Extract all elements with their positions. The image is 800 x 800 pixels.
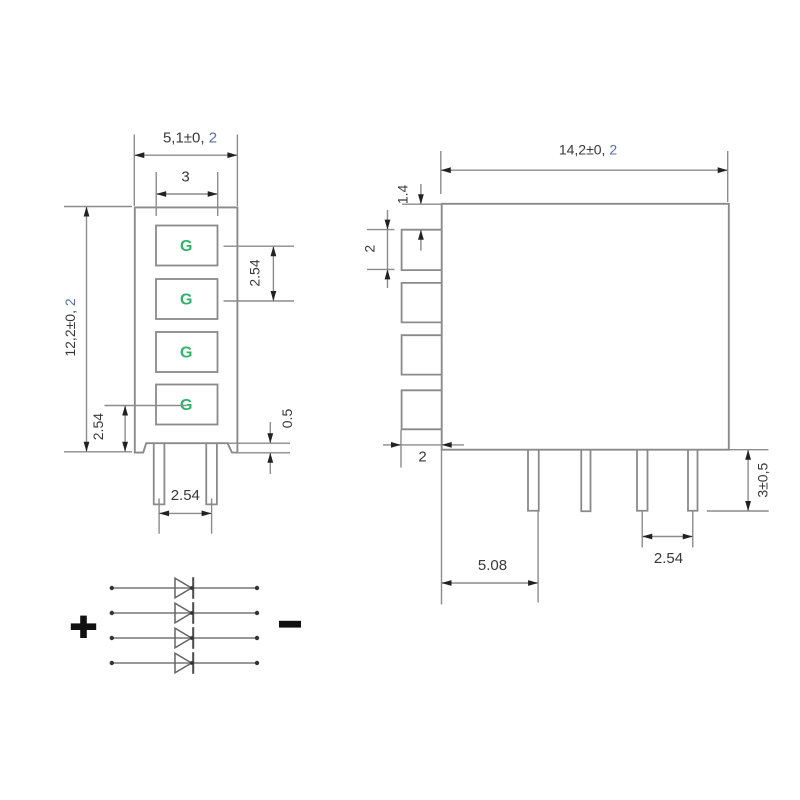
dimension 2.54 (lower-left pitch) extension line: [105, 405, 187, 407]
diode D1: [175, 577, 193, 599]
svg-text:5,1±0, 2: 5,1±0, 2: [163, 130, 217, 147]
dimension 5,1±0,2 extension lines: [133, 135, 135, 207]
dimension 2 (tab height) line with outside arrows: [387, 210, 389, 288]
svg-text:2: 2: [418, 449, 426, 466]
dimension 2.54 (side view pin pitch) extension lines: [641, 511, 643, 548]
dimension 0.5 extension lines: [228, 442, 290, 444]
dimension 2.54 (LED pitch) line: [272, 246, 274, 301]
dimension 5,1±0,2 line: [134, 154, 237, 156]
LED bar body outline (front view): [135, 207, 238, 452]
node dot right row 2: [255, 611, 259, 615]
node dot right row 3: [255, 636, 259, 640]
svg-text:2.54: 2.54: [171, 487, 200, 504]
dimension 5.08 line: [442, 582, 539, 584]
dimension 1.4 extension line: [402, 203, 442, 205]
dimension 2.54 (pin spacing bottom) extension lines: [158, 499, 160, 534]
dimension 1.4 line with outside arrows: [420, 184, 422, 204]
anode terminal +: [71, 616, 96, 638]
dimension 3 line: [156, 193, 218, 195]
pin 1 (front view left lead): [154, 444, 165, 505]
LED window 3: [156, 332, 218, 372]
pin 4 (side view): [688, 450, 698, 510]
svg-text:3±0,5: 3±0,5: [755, 463, 771, 498]
svg-text:1.4: 1.4: [394, 184, 410, 204]
svg-text:2.54: 2.54: [654, 550, 683, 567]
svg-text:G: G: [180, 292, 192, 309]
dimension 2.54 (lower-left) line: [124, 406, 126, 452]
LED window 1: [156, 226, 218, 266]
diode D2: [175, 602, 193, 624]
LED lens tab 1 (side view): [402, 230, 442, 270]
dimension 2.54 (pin spacing) line: [159, 512, 212, 514]
dimension 14,2±0,2 line: [441, 169, 728, 171]
node dot left row 2: [110, 611, 114, 615]
dimension 3±0,5 extension lines: [729, 449, 769, 451]
dimension 12,2±0,2 line: [86, 207, 88, 452]
svg-text:5.08: 5.08: [478, 557, 507, 574]
pin 2 (side view): [581, 450, 590, 511]
dimension 2.54 (LED pitch right) extension lines: [224, 245, 295, 247]
LED lens tab 2 (side view): [402, 283, 442, 323]
svg-text:0.5: 0.5: [279, 409, 295, 429]
LED lens tab 3 (side view): [402, 335, 442, 374]
diode D3: [175, 627, 193, 649]
node dot left row 4: [110, 661, 114, 665]
LED lens tab 4 (side view): [402, 390, 442, 429]
svg-text:3: 3: [181, 169, 189, 186]
dimension 2 (tab height) extension lines: [367, 229, 395, 231]
svg-text:G: G: [180, 345, 192, 362]
svg-text:14,2±0, 2: 14,2±0, 2: [559, 142, 617, 158]
dimension 5.08 extension lines: [441, 450, 443, 605]
wire diode row 2: [112, 612, 257, 614]
dimension 0.5 line with outside arrows: [269, 422, 271, 443]
dimension 3±0,5 line: [747, 450, 749, 511]
node dot right row 1: [255, 586, 259, 590]
svg-text:12,2±0, 2: 12,2±0, 2: [62, 298, 78, 356]
dimension 2 (tab depth) line with outside arrows: [383, 444, 464, 446]
dimension 3 extension lines: [155, 172, 157, 216]
dimension 14,2±0,2 extension lines: [440, 151, 442, 194]
node dot right row 4: [255, 661, 259, 665]
pin 2 (front view right lead): [206, 444, 217, 505]
svg-text:2.54: 2.54: [247, 259, 263, 286]
wire diode row 4: [112, 662, 257, 664]
svg-text:G: G: [180, 238, 192, 255]
node dot left row 3: [110, 636, 114, 640]
LED window 2: [156, 279, 218, 319]
LED window 4: [156, 385, 218, 425]
diode D4: [175, 652, 193, 674]
wire diode row 3: [112, 637, 257, 639]
node dot left row 1: [110, 586, 114, 590]
dimension 2 (tab depth bottom-left) extension line: [400, 430, 402, 468]
wire diode row 1: [112, 587, 257, 589]
svg-text:2.54: 2.54: [90, 413, 106, 440]
LED bar body outline (side view): [442, 204, 729, 450]
dimension 12,2±0,2 extension lines: [64, 206, 132, 208]
svg-text:2: 2: [362, 245, 378, 253]
pin 3 (side view): [637, 450, 648, 510]
pin 1 (side view): [528, 450, 539, 510]
cathode terminal -: [279, 621, 301, 628]
dimension 2.54 (side view) line: [642, 536, 693, 538]
